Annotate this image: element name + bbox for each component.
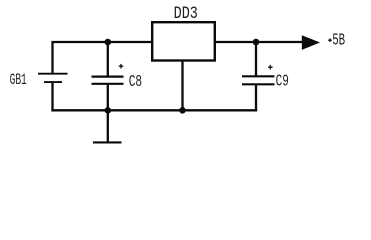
wire C9 bottom lead bbox=[255, 85, 257, 111]
wire C8 bottom lead bbox=[107, 84, 109, 110]
junction dot C8/ground bottom bbox=[105, 107, 112, 114]
battery GB1 bbox=[38, 74, 68, 82]
svg-text:C9: C9 bbox=[276, 72, 289, 91]
wire ground stub bbox=[107, 110, 109, 141]
wire C8 top lead bbox=[107, 42, 109, 76]
wire bottom rail bbox=[53, 109, 257, 111]
wire GB1 negative lead bbox=[51, 83, 53, 111]
junction dot C9 top bbox=[253, 39, 260, 46]
arrow output +5V bbox=[302, 35, 320, 50]
wire C9 top lead bbox=[255, 42, 257, 76]
wire DD3 output rail to arrow bbox=[216, 41, 305, 43]
IC DD3 voltage regulator bbox=[152, 22, 215, 60]
svg-text:5B: 5B bbox=[332, 31, 345, 50]
plus mark C9 bbox=[268, 65, 273, 70]
svg-text:DD3: DD3 bbox=[174, 5, 198, 24]
junction dot C8 top bbox=[105, 39, 112, 46]
junction dot DD3 ground pin bbox=[179, 107, 186, 114]
svg-text:GB1: GB1 bbox=[10, 71, 27, 89]
plus mark C8 bbox=[119, 64, 124, 69]
wire GB1 positive lead and top rail left bbox=[53, 42, 152, 73]
capacitor C8 bbox=[92, 77, 124, 84]
wire DD3 ground pin bbox=[181, 61, 183, 110]
label +5B net plus sign bbox=[328, 38, 332, 42]
svg-text:C8: C8 bbox=[129, 72, 142, 91]
capacitor C9 bbox=[242, 76, 275, 84]
ground bbox=[94, 141, 120, 143]
